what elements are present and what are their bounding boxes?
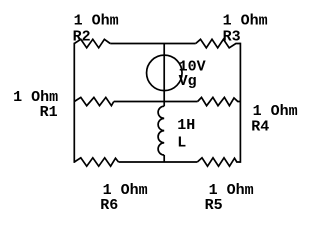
wire middle vertical through source bbox=[163, 44, 165, 107]
wire left vertical bbox=[73, 43, 75, 163]
wire right vertical bbox=[239, 43, 241, 163]
resistor R3 bbox=[196, 39, 241, 48]
wire bottom middle bbox=[119, 161, 198, 163]
svg-text:R2: R2 bbox=[73, 28, 91, 45]
voltage source Vg circle bbox=[147, 55, 183, 91]
resistor R6 bbox=[74, 158, 118, 166]
resistor R2 bbox=[74, 39, 110, 48]
svg-text:R6: R6 bbox=[100, 197, 118, 214]
svg-text:R4: R4 bbox=[251, 119, 269, 136]
svg-text:1 Ohm: 1 Ohm bbox=[74, 13, 119, 30]
resistor R4 bbox=[198, 97, 241, 105]
inductor L coil bbox=[158, 106, 164, 155]
resistor R5 bbox=[197, 158, 240, 166]
wire inductor to bottom bbox=[163, 155, 165, 162]
wire middle horizontal bbox=[114, 101, 198, 103]
svg-text:1 Ohm: 1 Ohm bbox=[223, 13, 268, 30]
svg-text:R5: R5 bbox=[205, 197, 223, 214]
svg-text:L: L bbox=[177, 135, 186, 152]
wire top middle bbox=[110, 43, 196, 45]
svg-text:1H: 1H bbox=[177, 117, 195, 134]
svg-text:R1: R1 bbox=[40, 104, 58, 121]
svg-text:Vg: Vg bbox=[179, 73, 197, 90]
resistor R1 bbox=[74, 97, 114, 105]
svg-text:R3: R3 bbox=[223, 28, 241, 45]
